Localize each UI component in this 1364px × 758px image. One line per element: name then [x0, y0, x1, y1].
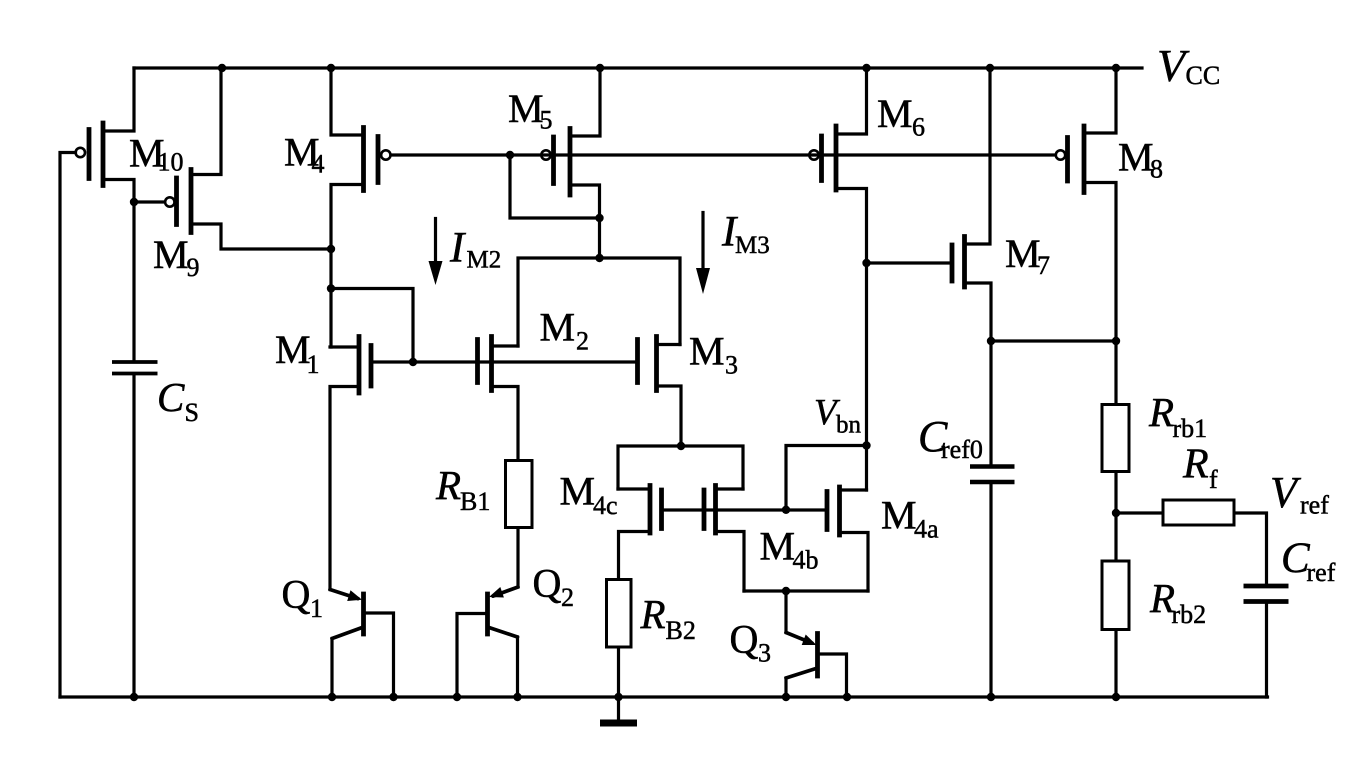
svg-text:Q: Q: [533, 561, 562, 606]
svg-text:M: M: [560, 469, 596, 514]
svg-text:M: M: [508, 86, 544, 131]
svg-text:I: I: [449, 225, 466, 272]
svg-text:R: R: [640, 591, 666, 637]
svg-text:Q: Q: [282, 572, 311, 617]
svg-text:M: M: [540, 305, 576, 350]
svg-text:S: S: [185, 398, 199, 427]
svg-text:8: 8: [1150, 155, 1163, 184]
svg-text:ref: ref: [1307, 558, 1336, 587]
svg-text:7: 7: [1037, 251, 1050, 280]
svg-text:rb2: rb2: [1172, 600, 1207, 629]
svg-text:M: M: [1005, 231, 1041, 276]
svg-text:rb1: rb1: [1173, 414, 1208, 443]
svg-text:f: f: [1209, 465, 1218, 494]
svg-text:4b: 4b: [793, 546, 819, 575]
svg-text:M: M: [275, 327, 311, 372]
svg-text:2: 2: [561, 583, 574, 612]
svg-text:M2: M2: [467, 247, 502, 274]
svg-text:M3: M3: [735, 232, 770, 259]
svg-text:M: M: [1118, 135, 1154, 180]
svg-text:5: 5: [540, 106, 553, 135]
svg-text:3: 3: [758, 639, 771, 668]
svg-text:ref: ref: [1300, 491, 1329, 520]
svg-text:Q: Q: [730, 617, 759, 662]
svg-text:M: M: [760, 524, 796, 569]
svg-text:ref0: ref0: [941, 435, 983, 464]
svg-text:10: 10: [158, 148, 184, 177]
svg-text:1: 1: [307, 350, 320, 379]
svg-text:6: 6: [912, 113, 925, 142]
svg-text:R: R: [1148, 389, 1174, 435]
svg-text:3: 3: [725, 351, 738, 380]
svg-text:4: 4: [312, 150, 325, 179]
svg-text:4c: 4c: [593, 491, 618, 520]
svg-text:B1: B1: [460, 487, 490, 516]
svg-text:M: M: [689, 329, 725, 374]
svg-text:bn: bn: [836, 412, 862, 439]
svg-text:1: 1: [310, 594, 323, 623]
svg-text:9: 9: [187, 253, 200, 282]
svg-text:2: 2: [576, 327, 589, 356]
svg-text:R: R: [1182, 442, 1209, 488]
svg-text:M: M: [153, 232, 189, 277]
svg-text:M: M: [881, 493, 917, 538]
svg-text:M: M: [877, 91, 913, 136]
svg-text:C: C: [157, 374, 185, 420]
svg-text:4a: 4a: [914, 515, 939, 544]
svg-text:CC: CC: [1186, 61, 1221, 90]
svg-text:R: R: [435, 462, 461, 508]
svg-text:B2: B2: [666, 616, 696, 645]
